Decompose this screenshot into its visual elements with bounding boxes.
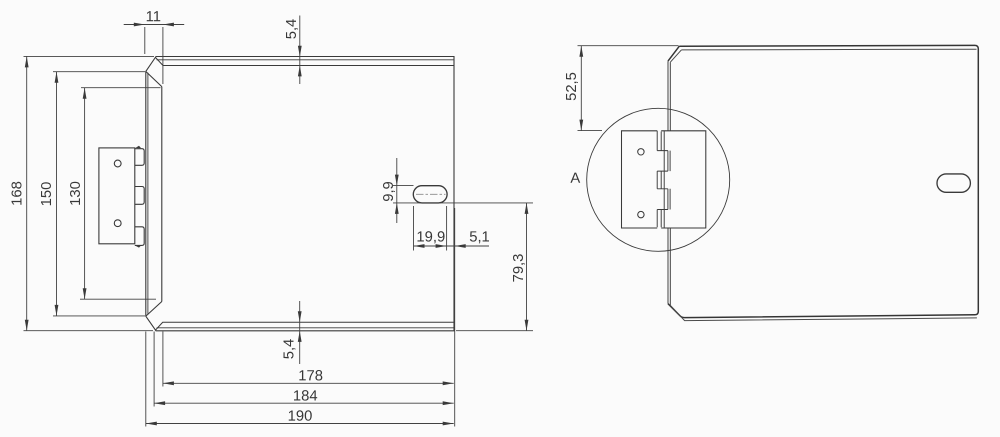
flap hem line — [147, 73, 149, 315]
plate bottom lower line — [670, 306, 977, 321]
plate top inner line — [681, 48, 976, 51]
slot centerline — [416, 193, 446, 195]
arrow 5.1 — [455, 244, 466, 248]
arrow 11 right — [163, 23, 174, 27]
arrow 5.4 top lower — [298, 65, 302, 76]
dim 52.5 line — [580, 46, 582, 131]
dim 52.5 extension bottom — [578, 130, 603, 132]
plate left edge below hinge — [668, 228, 670, 305]
svg-text:9,9: 9,9 — [381, 181, 397, 202]
dim 190 line — [146, 423, 454, 425]
knuckle 3 corner tab — [135, 245, 141, 247]
dim 52.5 extension top — [578, 45, 679, 47]
knuckle jog band 1 — [657, 151, 668, 172]
arrow 190 left — [146, 422, 157, 426]
dim 19.9 extension lines — [413, 206, 415, 251]
slot in left view — [413, 186, 447, 203]
hinge right leaf — [661, 131, 706, 228]
dim 184 line — [154, 402, 454, 404]
arrow 52.5 bottom — [579, 120, 583, 131]
arrow 11 left — [134, 23, 145, 27]
dim 178 line — [163, 382, 454, 384]
svg-text:19,9: 19,9 — [416, 229, 445, 245]
dim 130 extension lines — [81, 87, 161, 89]
dim 5.4 bottom line — [299, 301, 301, 364]
hinge in left view — [99, 146, 144, 248]
arrow 190 right — [443, 422, 454, 426]
svg-text:150: 150 — [39, 182, 55, 207]
svg-text:178: 178 — [298, 368, 323, 384]
dim 150 extension lines — [53, 71, 145, 73]
knuckle 1 — [135, 149, 144, 166]
dim 178 extension line — [162, 332, 164, 387]
dim 9.9 line — [396, 158, 398, 223]
svg-text:5,1: 5,1 — [469, 229, 490, 245]
knuckle crack band 1 — [657, 131, 661, 151]
arrow 9.9 upper — [395, 175, 399, 186]
dim 5.4 top line — [299, 16, 301, 85]
top edge mid line — [157, 59, 454, 61]
dim 52.5 — [578, 46, 679, 131]
arrow 79.3 top — [525, 203, 529, 214]
detail circle A — [587, 108, 730, 251]
arrow 178 left — [163, 381, 174, 385]
dim 19.9 / 5.1 line — [414, 245, 490, 247]
knuckle 2 — [135, 187, 144, 205]
arrow 184 left — [154, 401, 165, 405]
plate heavy outline: top edge, right edge, bottom edge, chamfers — [668, 45, 978, 317]
bottom edge mid line — [157, 327, 454, 329]
svg-text:52,5: 52,5 — [564, 72, 580, 101]
arrow 9.9 lower — [395, 203, 399, 214]
svg-text:A: A — [570, 171, 580, 187]
arrow 168 bottom — [25, 320, 29, 331]
arrow 178 right — [443, 381, 454, 385]
arrow 5.4 bottom lower — [298, 331, 302, 342]
labels left view — [10, 9, 528, 424]
hinge screw hole top — [114, 160, 121, 167]
hinge screw hole bottom — [114, 220, 121, 227]
plate outline with chamfered left corners — [146, 57, 454, 331]
arrow 19.9 left — [414, 244, 425, 248]
hinge left leaf — [622, 131, 658, 228]
knuckle crack band 2 — [657, 171, 661, 189]
top fold line 5.4 — [156, 58, 455, 66]
hinge screw hole top — [638, 149, 644, 155]
arrow 184 right — [443, 401, 454, 405]
svg-text:190: 190 — [288, 409, 313, 425]
arrow 150 top — [55, 72, 59, 83]
dim 168 extension lines — [24, 55, 155, 57]
arrow 168 top — [25, 56, 29, 67]
svg-text:11: 11 — [146, 9, 161, 25]
dim 168 line — [26, 56, 28, 330]
arrow 19.9 right — [436, 244, 447, 248]
right shared extension line — [454, 208, 456, 427]
arrow 52.5 top — [579, 46, 583, 57]
flap bend top diagonal — [146, 72, 162, 87]
flap bend line — [161, 87, 163, 302]
svg-text:130: 130 — [68, 181, 84, 206]
dim 150 line — [56, 72, 58, 316]
flap bend bottom diagonal — [146, 302, 162, 317]
dim 190 extension line — [145, 332, 147, 427]
dim 79.3 extension line bottom — [456, 330, 533, 332]
hinge screw hole bottom — [638, 211, 644, 217]
arrow 5.4 bottom upper — [298, 311, 302, 322]
knuckle crack band 3 — [657, 210, 661, 228]
arrowheads left view — [25, 23, 529, 426]
svg-text:5,4: 5,4 — [284, 19, 300, 40]
knuckle 3 — [135, 227, 144, 246]
dim 79.3 line — [526, 203, 528, 331]
bottom fold line 5.4 — [155, 322, 454, 330]
plate top inner chamfer line — [670, 50, 681, 62]
svg-text:5,4: 5,4 — [282, 339, 298, 360]
plate left edge above hinge — [668, 61, 670, 131]
slot (obround) — [413, 186, 447, 203]
svg-text:79,3: 79,3 — [511, 254, 527, 283]
svg-text:168: 168 — [10, 181, 26, 206]
dim 9.9 extension lines — [393, 185, 414, 187]
slot in right view — [937, 174, 970, 192]
dim 130 line — [84, 88, 86, 300]
jog outer edge lines — [669, 151, 671, 210]
hinge in right view — [622, 131, 706, 228]
arrow 130 bottom — [83, 288, 87, 299]
svg-text:184: 184 — [293, 388, 318, 404]
dim 11 extension lines — [144, 27, 146, 54]
dim 184 extension line — [153, 332, 155, 407]
arrow 79.3 bottom — [525, 320, 529, 331]
arrow 150 bottom — [55, 305, 59, 316]
hinge leaf — [99, 148, 135, 244]
arrow 5.4 top upper — [298, 46, 302, 57]
hinge pin line — [663, 131, 665, 228]
knuckle 1 corner tab — [135, 146, 141, 149]
dim 11 line — [124, 24, 185, 26]
arrow 130 top — [83, 88, 87, 99]
knuckle jog band 2 — [657, 189, 668, 210]
